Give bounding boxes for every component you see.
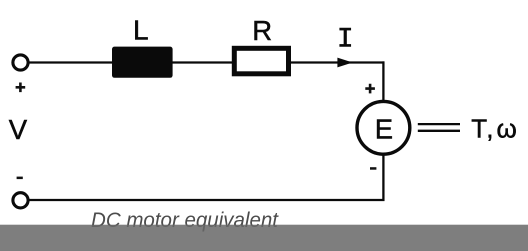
inductor L (body) [112, 47, 173, 78]
svg-text:I: I [337, 24, 354, 55]
shaft coupling symbol (double line) [418, 124, 460, 131]
bottom overlay bar [0, 225, 528, 251]
svg-text:V: V [9, 114, 28, 145]
plus sign at source V [16, 83, 26, 93]
plus sign at motor E [365, 84, 375, 94]
svg-text:R: R [252, 15, 272, 46]
svg-text:L: L [133, 14, 149, 45]
wire: motor - terminal down to node B [382, 155, 384, 202]
wire: bottom return, node B to T- [29, 199, 385, 201]
minus sign at source V [17, 177, 23, 180]
wire: resistor to node A (top of motor branch) [289, 61, 384, 63]
wire: inductor to resistor [172, 61, 233, 63]
motor / back-EMF source E (circle) [357, 101, 410, 154]
terminal T- (bottom-left open terminal) [13, 193, 28, 208]
current arrow I (arrowhead) [337, 58, 352, 68]
wire: node A down to motor + terminal [382, 61, 384, 101]
svg-text:E: E [375, 114, 393, 145]
wire: T+ to inductor [28, 61, 113, 63]
minus sign at motor E [370, 167, 376, 170]
terminal T+ (top-left open terminal) [13, 55, 28, 70]
svg-text:T,ω: T,ω [471, 113, 517, 143]
resistor R (body) [234, 48, 288, 74]
